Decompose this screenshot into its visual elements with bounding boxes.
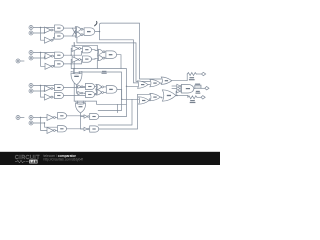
wire A4 to inverter U9 <box>33 117 47 119</box>
wire AND11 out to XNOR5 <box>95 86 96 88</box>
CircuitLab logo LAB box <box>29 160 37 164</box>
wire A1 to AND1 <box>33 27 54 29</box>
input terminal B3 <box>29 89 33 93</box>
wire C2 stub <box>20 60 24 62</box>
wire AND17 out rising to OR G8 <box>99 94 150 129</box>
wire AND10 out <box>64 95 86 97</box>
junction node J12 <box>44 57 45 58</box>
wire AND5 out to AND7 lower <box>71 61 82 64</box>
wire G6 out to resistor R1 <box>172 74 188 81</box>
junction node J2 <box>74 45 75 46</box>
wire U8 out <box>53 96 55 98</box>
wire AND4 out to AND6 lower <box>71 51 82 55</box>
wire G8 out <box>160 96 162 99</box>
wire junction down to resistor R2 <box>187 96 189 98</box>
AND gate AND3 <box>84 28 95 36</box>
wire A3 to AND9 <box>33 85 54 87</box>
input terminal B2 <box>29 56 33 60</box>
AND gate AND15 <box>58 126 67 132</box>
inverter U9 <box>47 114 55 120</box>
AND gate AND10 <box>55 92 64 98</box>
AND gate AND8 <box>106 51 117 59</box>
wire AND15 out <box>67 128 85 130</box>
inverter U8 <box>45 94 53 100</box>
wire cross AND1 to X2 <box>72 28 75 34</box>
AND gate AND16 <box>90 113 99 119</box>
inverter U7 <box>45 86 53 92</box>
wire R1 to flag F1 <box>196 73 201 75</box>
component box OUT <box>195 85 201 88</box>
resistor R1 <box>187 73 196 76</box>
junction node J6 <box>126 86 127 87</box>
tiny inverter X9 <box>84 115 89 118</box>
svg-text:LAB: LAB <box>30 160 38 164</box>
tiny inverter X10 <box>84 127 89 130</box>
tiny inverter T1 <box>177 84 182 87</box>
XNOR gate X2 <box>75 32 83 37</box>
wire XOR2 out split <box>81 113 85 129</box>
wire G7 out <box>149 99 150 101</box>
wire AND16 out rising to OR G4 <box>99 86 127 116</box>
wire U10 out <box>55 129 57 131</box>
AND gate AND6 <box>83 47 92 53</box>
wire U3 out <box>53 55 54 57</box>
junction node J3 <box>71 63 72 64</box>
wire B3 to inverter U7 <box>33 89 44 92</box>
label under box <box>196 91 200 92</box>
OR gate G8 <box>150 93 161 100</box>
OR gate G9 big <box>162 90 176 101</box>
input terminal B1 <box>29 31 33 35</box>
label R2 <box>190 100 195 101</box>
wire AND6 out to XNOR3 <box>92 49 98 52</box>
label R1 value <box>189 79 195 80</box>
wire X6 to AND13 <box>104 91 106 92</box>
junction node J7 <box>176 95 177 96</box>
wire AND5 out to inverter U6 <box>64 60 73 64</box>
junction node J16 <box>44 122 45 123</box>
inverter U3 <box>45 53 53 59</box>
wire X3 to AND8 <box>104 51 107 54</box>
tiny inverter T5 <box>78 91 83 94</box>
inverter U4 <box>45 63 53 69</box>
inverter U2 <box>45 37 53 43</box>
wire AND2 out <box>64 35 76 37</box>
wire U6 out <box>81 59 83 61</box>
tiny inverter T3 <box>177 90 182 93</box>
AND gate AND18 <box>182 84 194 93</box>
wire C4 stub <box>20 117 24 119</box>
inverter U1 <box>45 27 53 33</box>
wire T4 out to AND11 <box>83 86 86 88</box>
OR gate G4 <box>138 81 149 88</box>
tiny inverter T4 <box>78 85 83 88</box>
wire XOR1 out split <box>77 85 78 93</box>
annotation mark near top bus <box>95 21 97 25</box>
AND gate AND12 <box>86 91 95 97</box>
input terminal C4 <box>16 116 20 120</box>
junction node J13 <box>40 85 41 86</box>
XNOR gate X5 <box>96 84 104 89</box>
wire AND14 out <box>67 115 85 117</box>
CircuitLab logo waveform <box>15 160 29 163</box>
label under AND8 <box>102 71 106 72</box>
inverter U5 <box>72 46 80 52</box>
wire staircase to slice4 upper <box>98 99 132 125</box>
wire cascade into XNOR4 lower <box>96 61 98 68</box>
wire B2 to inverter U3 <box>33 56 45 58</box>
wire B1 to inverter U1 <box>33 30 44 33</box>
inverter U6 <box>72 57 80 63</box>
wire U7 out <box>53 88 55 90</box>
wire jog up to tri T3 <box>175 91 178 95</box>
wire AND9 out <box>64 87 86 89</box>
AND gate AND17 <box>90 126 99 132</box>
wire AND3 out top bus to OR G6 <box>95 23 162 79</box>
wire G4 out <box>148 84 150 86</box>
label R2 value <box>190 102 196 103</box>
wire A4 down to inverter U10 <box>41 118 48 131</box>
XNOR gate X4 <box>97 56 105 61</box>
wire X5 to AND13 <box>104 86 106 89</box>
tiny inverter T2 <box>177 87 182 90</box>
junction node J10 <box>44 32 45 33</box>
input terminal A4 <box>29 116 33 120</box>
XOR gate XOR2 <box>76 102 86 113</box>
label under box line2 <box>196 93 201 94</box>
wire XOR2 input drops <box>78 101 84 103</box>
wire AND4 out to inverter U5 <box>64 49 73 56</box>
wire cascade into XOR1 left <box>73 69 75 74</box>
footer black bar <box>0 152 220 165</box>
junction node J9 <box>40 27 41 28</box>
junction node J11 <box>40 52 41 53</box>
wire tri T2 stub <box>172 88 177 90</box>
wire cascade into XNOR3 <box>74 45 97 49</box>
wire AND3 out second bus to OR G4 <box>100 32 138 83</box>
wire B4 to AND15 <box>33 123 57 127</box>
resistor R2 <box>188 96 197 99</box>
wire cross AND2 to X1 <box>72 31 75 36</box>
input terminal C2 <box>16 59 20 63</box>
junction node J17 <box>71 55 72 56</box>
input terminal A2 <box>29 51 33 55</box>
wire A2 to AND4 <box>33 52 54 54</box>
XNOR gate X6 <box>96 90 104 95</box>
wire U5 out <box>81 48 83 50</box>
AND gate AND5 <box>55 61 64 67</box>
OR gate G6 <box>161 77 172 84</box>
svg-text:http://circuitlab.com/c6dyb4f: http://circuitlab.com/c6dyb4f <box>44 157 84 161</box>
wire A2 down to inverter U4 <box>41 53 46 67</box>
wire A1 down to inverter U2 <box>41 28 45 41</box>
inverter U10 <box>47 127 55 133</box>
wire AND8 out down join cascade <box>117 55 121 69</box>
wire X1 to AND3 <box>82 28 85 31</box>
junction node J1 <box>99 31 100 32</box>
OR gate G7 <box>139 97 150 104</box>
wire X4 to AND8 <box>104 57 107 58</box>
junction node J14 <box>44 90 45 91</box>
output flag F1 <box>202 72 206 75</box>
junction node J8 <box>121 99 122 100</box>
input terminal B4 <box>29 121 33 125</box>
wire T5 out to AND12 <box>83 92 86 94</box>
wire bus y100.6 to x126 <box>74 101 126 104</box>
output flag F2 <box>205 87 209 90</box>
output flag F3 <box>201 96 205 99</box>
OR gate G5 <box>150 79 161 86</box>
wire x117 drop <box>117 104 119 112</box>
wire AND18 out <box>193 88 196 90</box>
input terminal A3 <box>29 84 33 88</box>
wire U2 out <box>53 38 55 41</box>
AND gate AND4 <box>55 52 64 58</box>
junction node J4 <box>79 71 80 72</box>
wire AND1 out <box>64 27 76 29</box>
wire slice1 cascade bus to OR G5 <box>77 37 150 81</box>
wire AND7 out to XNOR4 <box>92 57 98 60</box>
wire box to flag F2 <box>201 87 205 89</box>
junction node J18 <box>74 42 75 43</box>
wire U4 out <box>53 64 54 67</box>
wire U9 out <box>55 116 57 118</box>
AND gate AND14 <box>58 113 67 119</box>
wire U1 out <box>53 29 55 31</box>
AND gate AND7 <box>83 56 92 62</box>
wire cascade bus down left column <box>73 43 75 101</box>
wire R2 to flag F3 <box>197 96 201 98</box>
wire A3 down to inverter U8 <box>41 86 45 98</box>
label above box <box>195 84 200 85</box>
wire tri T1 stub <box>172 85 177 87</box>
label under AND8 line2 <box>102 73 107 74</box>
wire G5 out <box>160 82 161 84</box>
wire slice2 lower cascade <box>71 64 137 86</box>
wire G9 out under AND18 <box>176 95 188 97</box>
junction node J5 <box>74 68 75 69</box>
AND gate AND9 <box>55 84 64 90</box>
XNOR gate X1 <box>75 27 83 32</box>
XNOR gate X3 <box>97 49 105 54</box>
AND gate AND13 <box>106 86 117 94</box>
AND gate AND11 <box>86 83 95 89</box>
wire cascade staircase right <box>79 72 121 111</box>
label R1 <box>190 77 195 78</box>
input terminal A1 <box>29 26 33 30</box>
XOR gate XOR1 <box>71 71 82 85</box>
wire AND13 out down to OR G7 <box>117 89 139 99</box>
wire X2 to AND3 <box>82 34 85 35</box>
wire AND12 out to XNOR6 <box>95 94 96 95</box>
AND gate AND2 <box>55 33 64 39</box>
junction node J15 <box>40 117 41 118</box>
AND gate AND1 <box>55 25 64 31</box>
